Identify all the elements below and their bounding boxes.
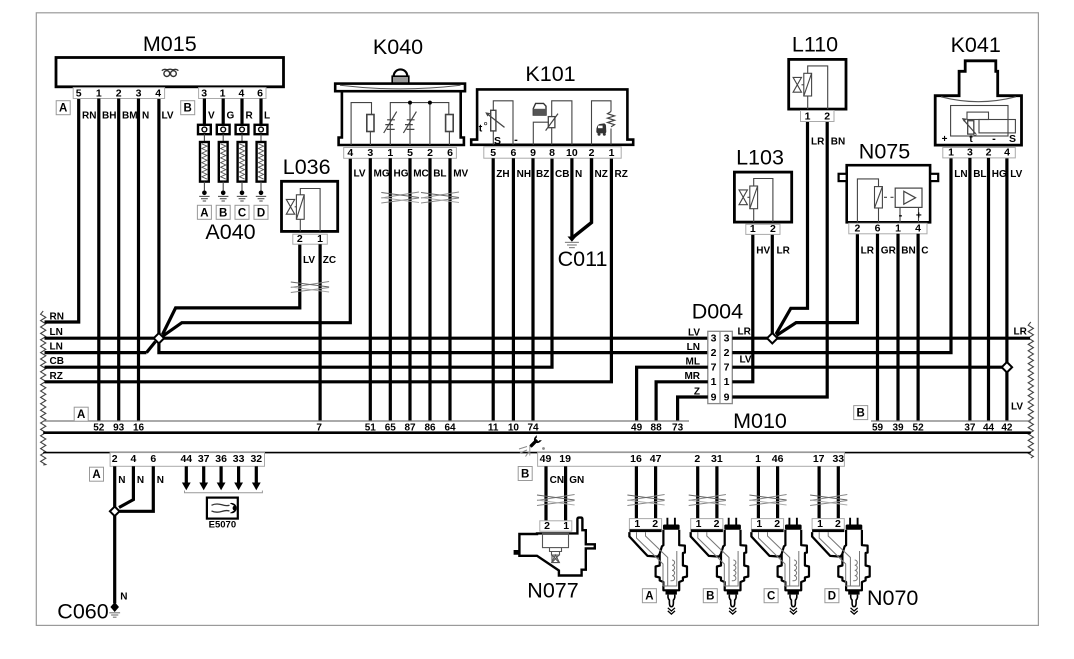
svg-text:2: 2 — [824, 110, 830, 122]
svg-text:C060: C060 — [57, 600, 108, 624]
svg-text:2: 2 — [297, 233, 303, 245]
L110 valve symbol — [793, 77, 801, 92]
svg-text:A: A — [200, 207, 208, 219]
right torn-edge zigzag — [1028, 322, 1033, 458]
svg-text:6: 6 — [150, 453, 156, 465]
svg-text:A: A — [77, 409, 85, 421]
wire N splice to ground C060 — [113, 516, 116, 603]
twisted pair mark N077 wires — [537, 495, 575, 501]
cylinder label D — [254, 205, 268, 219]
svg-text:6: 6 — [447, 147, 453, 159]
wire M015 pin4 LV down to splice — [157, 99, 160, 335]
svg-text:LN: LN — [50, 327, 63, 338]
ground below spark plug D — [259, 191, 264, 196]
svg-text:2: 2 — [112, 453, 118, 465]
K040 bulb — [394, 69, 408, 76]
wire RN bus from left edge — [45, 99, 79, 323]
K041 internal circuit — [951, 106, 1016, 137]
K101 speed circuit — [592, 101, 615, 145]
svg-text:5: 5 — [76, 87, 82, 99]
harness connector strip — [43, 452, 1031, 454]
svg-text:6: 6 — [510, 147, 516, 159]
wire injector C pin2 — [776, 466, 779, 519]
K041 pin row (pins 1 3 2 4) — [943, 148, 1016, 158]
wire injector A pin2 — [654, 466, 657, 519]
svg-text:3: 3 — [724, 333, 730, 345]
svg-text:51: 51 — [365, 422, 377, 433]
svg-text:1: 1 — [387, 147, 393, 159]
svg-text:1: 1 — [317, 233, 323, 245]
N075 left mounting tab — [839, 174, 847, 181]
svg-text:LN: LN — [954, 169, 967, 180]
svg-text:1: 1 — [805, 110, 811, 122]
svg-text:-: - — [992, 133, 996, 145]
svg-text:1: 1 — [724, 376, 730, 388]
svg-text:C: C — [238, 207, 246, 219]
svg-text:5: 5 — [407, 147, 413, 159]
wire LN2 diagonal into splice — [147, 342, 156, 353]
svg-text:N: N — [120, 592, 127, 603]
svg-text:L103: L103 — [736, 146, 784, 170]
svg-text:2: 2 — [714, 518, 720, 530]
wire injector D pin2 — [837, 466, 840, 519]
L036 valve symbol — [286, 199, 294, 214]
svg-text:K101: K101 — [525, 62, 575, 86]
K101 temperature sensor symbol — [485, 101, 513, 145]
svg-text:D004: D004 — [692, 300, 743, 324]
twisted pair mark injector B — [689, 495, 726, 501]
idle actuator N077 — [540, 521, 572, 531]
wire CB bus from left edge to K101 pin 8 — [45, 158, 553, 367]
svg-text:1: 1 — [634, 518, 640, 530]
svg-text:47: 47 — [650, 453, 662, 465]
svg-text:10: 10 — [508, 422, 520, 433]
K040 internal circuit — [351, 103, 453, 145]
svg-text:N: N — [142, 111, 149, 122]
wire K041 pin4 through splice to M010 pin 42 — [1005, 158, 1008, 421]
wire ML M010 pin 49 to D004 pin 7 — [637, 367, 708, 421]
svg-text:4: 4 — [347, 147, 353, 159]
wire N K101 pin10 to ground C011 — [570, 158, 573, 237]
svg-text:9: 9 — [711, 391, 717, 403]
svg-text:RN: RN — [82, 111, 96, 122]
harness connector B pin box (pins 49 19 16 47 2 31 1 46 17 33) — [538, 453, 845, 467]
svg-text:1: 1 — [220, 87, 226, 99]
M015 connector label A — [56, 101, 70, 115]
svg-text:LN: LN — [50, 342, 63, 353]
wire N harness pin4 to splice — [119, 466, 133, 507]
svg-text:N: N — [575, 169, 582, 180]
svg-text:1: 1 — [756, 518, 762, 530]
svg-text:HG: HG — [992, 169, 1007, 180]
svg-text:C011: C011 — [558, 247, 608, 271]
svg-text:3: 3 — [201, 87, 207, 99]
svg-text:37: 37 — [964, 422, 976, 433]
svg-text:52: 52 — [93, 422, 105, 433]
svg-text:BN: BN — [901, 245, 915, 256]
svg-text:N: N — [157, 475, 164, 486]
svg-text:33: 33 — [233, 453, 245, 465]
svg-text:N: N — [118, 475, 125, 486]
spark plug column A — [203, 99, 206, 125]
wire BL K041 pin3 to M010 pin 37 — [968, 158, 971, 421]
K101 fuel gauge circuit — [533, 101, 572, 145]
svg-text:B: B — [706, 591, 714, 603]
wire N harness pin2 down to splice — [113, 466, 116, 506]
svg-text:1: 1 — [711, 376, 717, 388]
wire MV K040 pin6 to M010 pin 64 — [448, 158, 451, 421]
svg-text:N075: N075 — [859, 140, 910, 164]
svg-text:2: 2 — [854, 223, 860, 235]
svg-text:33: 33 — [832, 453, 844, 465]
svg-text:-: - — [899, 210, 903, 222]
wire C N075 pin4 to M010 pin 52 — [916, 234, 919, 421]
svg-text:2: 2 — [694, 453, 700, 465]
svg-text:BL: BL — [433, 169, 446, 180]
svg-text:7: 7 — [316, 422, 322, 433]
cylinder label A — [197, 205, 211, 219]
svg-text:2: 2 — [589, 147, 595, 159]
svg-text:NH: NH — [517, 169, 531, 180]
cylinder label D injector — [825, 589, 839, 603]
tool icon E5070 — [207, 498, 238, 519]
K101 fuel can icon — [533, 103, 546, 115]
svg-text:1: 1 — [563, 520, 569, 532]
wire BH M015 pin1 to M010 pin 52 — [97, 99, 100, 422]
spark plug column C — [240, 99, 243, 125]
harness connector label B — [518, 467, 532, 481]
svg-text:1: 1 — [895, 223, 901, 235]
ground C011 — [568, 237, 577, 242]
svg-text:1: 1 — [755, 453, 761, 465]
wire BM M015 pin2 to M010 pin 93 — [117, 99, 120, 422]
svg-text:LV: LV — [688, 327, 700, 338]
ground C060 — [110, 602, 119, 612]
wire BN D004 pin 9 to L110 pin 2 — [732, 122, 827, 398]
svg-text:49: 49 — [540, 453, 552, 465]
svg-text:3: 3 — [967, 147, 973, 159]
svg-text:LN: LN — [687, 342, 700, 353]
twisted pair mark injector D — [810, 495, 847, 501]
svg-text:N077: N077 — [527, 579, 578, 603]
svg-text:9: 9 — [530, 147, 536, 159]
svg-text:39: 39 — [892, 422, 904, 433]
svg-text:LV: LV — [740, 355, 752, 366]
svg-text:A: A — [59, 103, 67, 115]
wire injector D pin1 — [817, 466, 820, 519]
svg-text:86: 86 — [424, 422, 436, 433]
harness connector label A — [90, 467, 104, 481]
svg-text:M010: M010 — [733, 409, 787, 433]
cylinder label C — [235, 205, 249, 219]
wire BN N075 pin1 to M010 pin 39 — [896, 234, 899, 421]
svg-text:t: t — [479, 123, 483, 135]
svg-text:52: 52 — [913, 422, 925, 433]
svg-text:1: 1 — [609, 147, 615, 159]
svg-text:G: G — [227, 111, 235, 122]
twisted pair mark injector A — [627, 495, 664, 501]
ground below spark plug C — [240, 191, 245, 196]
left torn-edge zigzag — [41, 311, 46, 465]
ground below spark plug A — [202, 191, 207, 196]
svg-text:RZ: RZ — [50, 371, 63, 382]
svg-text:LR: LR — [1014, 327, 1028, 338]
wire NZ K101 pin2 to ground C011 — [573, 158, 592, 237]
svg-text:74: 74 — [527, 422, 539, 433]
svg-text:+: + — [942, 134, 948, 145]
cylinder label C injector — [764, 589, 778, 603]
K101 car icon — [596, 123, 606, 133]
svg-text:K040: K040 — [373, 35, 423, 59]
svg-text:L110: L110 — [792, 33, 838, 57]
svg-text:A: A — [645, 591, 653, 603]
svg-text:46: 46 — [772, 453, 784, 465]
wire L103 pin2 down to LR splice — [771, 234, 774, 333]
svg-text:D: D — [257, 207, 265, 219]
svg-text:93: 93 — [113, 422, 125, 433]
wire N M015 pin3 to M010 pin 16 — [137, 99, 140, 422]
K040 body — [339, 91, 464, 145]
svg-text:B: B — [521, 469, 529, 481]
svg-text:B: B — [219, 207, 227, 219]
fuel injector N070 C — [751, 519, 783, 530]
svg-text:3: 3 — [711, 333, 717, 345]
svg-text:64: 64 — [444, 422, 456, 433]
twisted pair marks K040 wires — [381, 192, 419, 198]
svg-text:C: C — [767, 591, 775, 603]
svg-text:MV: MV — [453, 169, 468, 180]
wire MG K040 pin3 to M010 pin 51 — [369, 158, 372, 421]
svg-text:CN: CN — [550, 475, 564, 486]
splice node diamond N — [110, 507, 120, 517]
wire HG K041 pin2 to M010 pin 44 — [987, 158, 990, 421]
svg-text:LV: LV — [303, 255, 315, 266]
svg-text:BL: BL — [973, 169, 986, 180]
svg-text:87: 87 — [404, 422, 416, 433]
svg-text:ZH: ZH — [496, 169, 509, 180]
wire MR M010 pin 88 to D004 pin 1 — [656, 382, 708, 421]
K040 top flange — [335, 84, 465, 92]
wire splice to D004 pin 3 (LV) — [163, 337, 708, 340]
L103 valve symbol — [739, 190, 747, 205]
svg-text:2: 2 — [770, 223, 776, 235]
wire RZ bus from left edge to K101 pin 1 — [45, 158, 612, 381]
L103 pin row (pins 1 2) — [746, 224, 780, 234]
svg-text:73: 73 — [672, 422, 684, 433]
wire CN harness pin49 to N077 pin2 — [544, 466, 547, 521]
N075 pin row (pins 2 6 1 4) — [849, 223, 927, 234]
L036 pin row (pins 2 1) — [293, 234, 328, 244]
wire splice to K040 pin 4 (LV) — [163, 158, 350, 336]
svg-text:11: 11 — [488, 422, 499, 433]
svg-text:CB: CB — [50, 356, 64, 367]
K040 sensor element symbol — [403, 112, 416, 133]
ECU M010 strip — [43, 420, 689, 422]
svg-text:A: A — [92, 469, 100, 481]
wire MC K040 pin5 to M010 pin 87 — [408, 158, 411, 421]
twisted pair mark L036 wires — [291, 282, 329, 288]
harness connector A pin box (pins 2 4 6 44 37 36 33 32) — [110, 453, 264, 467]
K101 pin row (pins 5 6 9 8 10 2 1) — [484, 147, 621, 158]
svg-text:2: 2 — [652, 518, 658, 530]
splice node diamond LV/LN — [154, 333, 164, 343]
wire BZ K101 pin9 to M010 pin 74 — [531, 158, 534, 421]
svg-text:S: S — [494, 135, 501, 147]
svg-text:44: 44 — [180, 453, 192, 465]
svg-text:D: D — [828, 591, 836, 603]
svg-text:59: 59 — [872, 422, 884, 433]
bracket line under arrows — [185, 491, 263, 493]
cylinder label A injector — [642, 589, 656, 603]
svg-text:GN: GN — [569, 475, 584, 486]
svg-text:HG: HG — [394, 169, 409, 180]
cylinder label B — [216, 205, 230, 219]
svg-text:NZ: NZ — [595, 169, 608, 180]
svg-text:S: S — [1009, 133, 1016, 145]
svg-text:2: 2 — [427, 147, 433, 159]
svg-text:6: 6 — [257, 87, 263, 99]
svg-text:31: 31 — [711, 453, 723, 465]
svg-text:9: 9 — [724, 391, 730, 403]
svg-text:+: + — [916, 211, 922, 222]
svg-text:LR: LR — [861, 245, 875, 256]
svg-text:5: 5 — [490, 147, 496, 159]
wire LN bus 1 from left edge — [45, 337, 154, 340]
wire HG K040 pin1 to M010 pin 65 — [389, 158, 392, 421]
M015 connector B pin row (pins 3 1 4 6) — [199, 88, 266, 99]
wire injector C pin1 — [757, 466, 760, 519]
arrows to E5070 harness pins 44 37 36 33 32 — [185, 466, 188, 482]
K040 junction dots — [408, 101, 412, 105]
svg-text:2: 2 — [724, 347, 730, 359]
wire NH K101 pin6 to M010 pin 10 — [512, 158, 515, 421]
svg-text:RZ: RZ — [615, 169, 628, 180]
N075 internal circuit — [857, 179, 918, 222]
wire Z M010 pin 73 to D004 pin 9 — [678, 397, 708, 421]
svg-text:LV: LV — [1010, 169, 1022, 180]
svg-text:GR: GR — [881, 245, 897, 256]
svg-text:1: 1 — [948, 147, 954, 159]
svg-text:LR: LR — [777, 245, 791, 256]
svg-text:B: B — [184, 103, 192, 115]
svg-text:ZC: ZC — [323, 255, 336, 266]
wire GR N075 pin6 to M010 pin 59 — [876, 234, 879, 421]
svg-text:10: 10 — [566, 147, 578, 159]
svg-text:2: 2 — [774, 518, 780, 530]
svg-text:4: 4 — [1004, 147, 1010, 159]
svg-text:LV: LV — [1011, 402, 1023, 413]
svg-text:4: 4 — [130, 453, 136, 465]
wire injector B pin2 — [715, 466, 718, 519]
svg-text:B: B — [857, 408, 865, 420]
svg-text:C: C — [921, 245, 928, 256]
svg-text:3: 3 — [367, 147, 373, 159]
svg-text:36: 36 — [215, 453, 227, 465]
svg-text:16: 16 — [630, 453, 642, 465]
cylinder label B injector — [703, 589, 717, 603]
L110 pin row (pins 1 2) — [801, 111, 835, 122]
splice node diamond LV right — [1002, 362, 1012, 372]
svg-text:E5070: E5070 — [209, 520, 236, 531]
svg-text:3: 3 — [136, 87, 142, 99]
wire GN harness pin19 to N077 pin1 — [564, 466, 567, 521]
wire N harness pin6 to splice — [120, 466, 154, 511]
splice node diamond LR — [767, 333, 777, 343]
svg-text:42: 42 — [1001, 422, 1013, 433]
wire ZH K101 pin5 to M010 pin 11 — [492, 158, 495, 421]
svg-text:CB: CB — [555, 169, 569, 180]
svg-text:17: 17 — [813, 453, 825, 465]
M015 internal symbol — [162, 69, 179, 76]
K040 pin row (pins 4 3 1 5 2 6) — [344, 148, 457, 159]
svg-text:LR: LR — [811, 137, 825, 148]
svg-text:88: 88 — [651, 422, 663, 433]
svg-text:7: 7 — [711, 362, 717, 374]
M010 connector label A — [74, 407, 88, 421]
svg-text:V: V — [208, 111, 215, 122]
svg-text:2: 2 — [711, 347, 717, 359]
M015 connector label B — [181, 101, 195, 115]
svg-text:1: 1 — [696, 518, 702, 530]
svg-text:LV: LV — [354, 169, 366, 180]
svg-text:MC: MC — [413, 169, 429, 180]
K040 sensor element symbol — [384, 112, 397, 133]
wire HV D004 pin 1 to L103 pin 1 — [732, 234, 753, 381]
wire L110 pin1 to LR splice — [776, 122, 808, 335]
wire splice to LN2 right run to D004 pin 2 — [159, 342, 708, 353]
svg-text:4: 4 — [155, 87, 161, 99]
wire LR D004 pin 3 to splice and right edge — [732, 337, 1030, 340]
wire splice to L036 pin 2 (LV) — [163, 244, 300, 334]
svg-text:16: 16 — [133, 422, 145, 433]
fuel injector N070 D — [812, 519, 844, 530]
wire LV D004 pin 7 to splice at K041 pin 4 — [732, 366, 1002, 369]
svg-text:L: L — [264, 111, 270, 122]
svg-text:65: 65 — [385, 422, 397, 433]
twisted pair mark injector C — [749, 495, 786, 501]
svg-text:7: 7 — [724, 362, 730, 374]
M015 connector A pin row (pins 5 1 2 3 4) — [73, 88, 164, 99]
svg-text:R: R — [246, 111, 254, 122]
svg-text:L036: L036 — [283, 155, 331, 179]
svg-text:N070: N070 — [867, 586, 918, 610]
svg-text:4: 4 — [915, 223, 921, 235]
svg-text:MG: MG — [374, 169, 390, 180]
svg-text:BH: BH — [102, 111, 116, 122]
wire N075 pin2 to LR splice — [776, 234, 857, 336]
wire BL K040 pin2 to M010 pin 86 — [428, 158, 431, 421]
spark plug column B — [222, 99, 225, 125]
svg-text:44: 44 — [983, 422, 995, 433]
svg-text:2: 2 — [835, 518, 841, 530]
svg-text:LR: LR — [738, 327, 752, 338]
disconnect wrench symbol — [528, 435, 542, 449]
fuel injector N070 B — [691, 519, 723, 530]
ground below spark plug B — [221, 191, 226, 196]
wire LN bus 2 from left edge — [45, 351, 147, 354]
svg-text:M015: M015 — [143, 32, 197, 56]
N075 right mounting tab — [930, 174, 938, 181]
svg-text:BM: BM — [122, 111, 138, 122]
fuel injector N070 A — [629, 519, 661, 530]
svg-text:HV: HV — [756, 245, 770, 256]
svg-text:BN: BN — [831, 137, 845, 148]
wire injector B pin1 — [696, 466, 699, 519]
svg-text:1: 1 — [817, 518, 823, 530]
svg-text:4: 4 — [238, 87, 244, 99]
wire injector A pin1 — [635, 466, 638, 519]
svg-text:49: 49 — [631, 422, 643, 433]
